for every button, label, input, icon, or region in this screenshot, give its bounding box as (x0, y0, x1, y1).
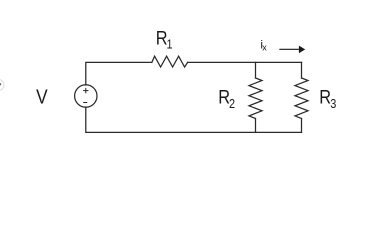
voltage source plus sign (83, 88, 88, 103)
resistor R1 (152, 56, 188, 67)
voltage source V (circle) (75, 85, 97, 107)
wire R3 top (301, 62, 303, 78)
svg-text:x: x (262, 42, 267, 52)
svg-text:2: 2 (229, 96, 235, 111)
svg-text:3: 3 (330, 96, 336, 111)
node A (R2 top branch wire) (255, 62, 257, 78)
resistor R3 (295, 78, 308, 119)
voltage source minus sign (83, 102, 87, 104)
svg-text:R: R (319, 86, 331, 108)
wire R3 bottom (301, 119, 303, 133)
wire top-right segment (188, 61, 302, 63)
current arrow (279, 46, 305, 54)
wire R2 bottom (255, 119, 257, 133)
left-edge cropped artifact (0, 80, 4, 91)
svg-text:1: 1 (166, 36, 172, 51)
resistor R2 (249, 78, 262, 119)
wire left-bottom segment (86, 107, 302, 132)
wire top-left segment (86, 62, 152, 85)
svg-text:V: V (36, 85, 48, 108)
